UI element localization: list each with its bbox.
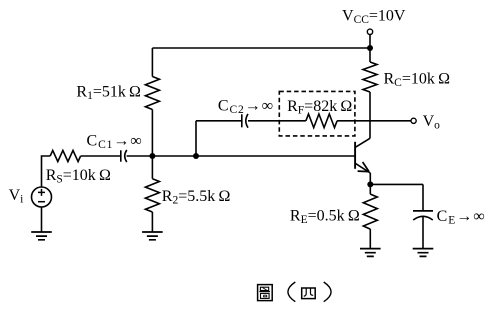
wire R1 top lead — [151, 48, 153, 77]
node Vo terminal — [411, 118, 416, 123]
node base-divider junction — [149, 153, 155, 159]
svg-text:RE=0.5k Ω: RE=0.5k Ω — [290, 208, 360, 227]
wire RE bottom lead — [369, 229, 371, 249]
source Vi — [32, 187, 52, 207]
wire top rail — [152, 47, 370, 49]
svg-text:RS=10k Ω: RS=10k Ω — [46, 167, 111, 186]
svg-text:R1=51k Ω: R1=51k Ω — [76, 83, 141, 102]
svg-text:VCC=10V: VCC=10V — [342, 8, 406, 27]
glyph close paren — [324, 282, 331, 302]
resistor RC — [363, 62, 377, 92]
ground CE — [413, 249, 434, 257]
glyph Tu (figure) — [258, 285, 273, 301]
capacitor CE — [413, 210, 433, 212]
wire RF to Vo — [337, 120, 411, 122]
wire R2 top lead — [151, 156, 153, 179]
wire RC top lead — [369, 48, 371, 62]
junction dot at VCC rail — [367, 45, 373, 51]
resistor R2 — [145, 179, 159, 212]
wire emitter vertical — [369, 173, 371, 184]
resistor RS — [50, 150, 80, 161]
wire CE bottom lead — [422, 217, 424, 249]
node emitter junction — [367, 181, 373, 187]
node VCC terminal — [367, 29, 372, 34]
wire RS to CC1 — [81, 155, 121, 157]
wire CE top lead — [422, 184, 424, 211]
resistor RF — [306, 114, 337, 128]
ground RE — [360, 249, 381, 257]
wire to CC2 — [196, 120, 242, 122]
ground R2 — [142, 232, 163, 240]
capacitor CC1 — [120, 150, 122, 161]
wire Vi to RS corner — [42, 156, 51, 187]
resistor R1 — [145, 77, 159, 110]
glyph open paren — [288, 282, 295, 302]
capacitor CC2 — [241, 114, 243, 127]
wire VCC terminal to rail — [369, 35, 371, 49]
node feedback tap junction — [193, 153, 199, 159]
svg-text:RC=10k Ω: RC=10k Ω — [384, 70, 451, 89]
wire emitter to CE — [370, 183, 423, 185]
wire RC bottom / collector vertical — [369, 92, 371, 138]
svg-text:CE→∞: CE→∞ — [437, 208, 486, 227]
dashed feedback box — [279, 91, 355, 135]
svg-text:R2=5.5k Ω: R2=5.5k Ω — [162, 188, 231, 207]
svg-text:CC1→∞: CC1→∞ — [87, 133, 143, 152]
caption Figure (4) — [258, 282, 332, 302]
wire feedback branch vertical — [195, 121, 197, 156]
ground Vi — [31, 232, 52, 240]
svg-text:CC2→∞: CC2→∞ — [218, 98, 274, 117]
resistor RE — [363, 194, 377, 229]
wire Vi bottom lead — [41, 207, 43, 232]
wire CC2 to RF — [248, 120, 306, 122]
glyph four — [302, 288, 316, 299]
svg-text:RF=82k Ω: RF=82k Ω — [287, 98, 352, 117]
wire R2 bottom lead — [151, 212, 153, 232]
wire base wire — [127, 155, 355, 157]
wire RE top lead — [369, 184, 371, 194]
wire R1 bottom lead — [151, 110, 153, 157]
transistor Q1 — [354, 142, 356, 169]
